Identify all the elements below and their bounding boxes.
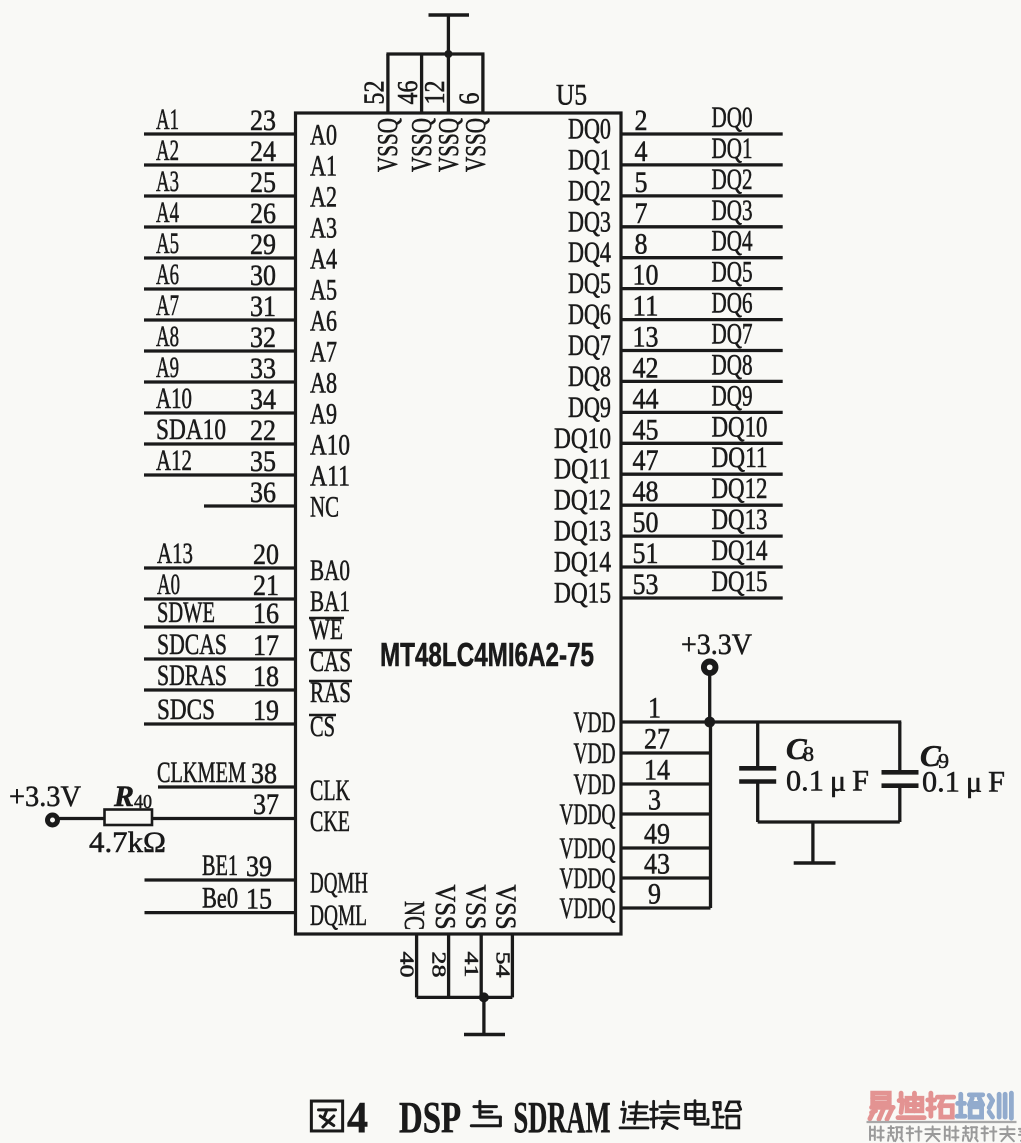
svg-text:47: 47 bbox=[633, 444, 659, 477]
svg-text:A3: A3 bbox=[156, 165, 179, 198]
svg-text:9: 9 bbox=[648, 878, 661, 911]
svg-text:49: 49 bbox=[644, 818, 670, 851]
svg-text:12: 12 bbox=[420, 81, 451, 105]
svg-text:DQ4: DQ4 bbox=[712, 225, 753, 258]
svg-text:DSP: DSP bbox=[399, 1093, 461, 1142]
svg-text:A8: A8 bbox=[156, 320, 179, 353]
svg-text:29: 29 bbox=[250, 228, 276, 261]
svg-text:39: 39 bbox=[246, 850, 272, 883]
svg-text:+3.3V: +3.3V bbox=[681, 628, 752, 661]
svg-text:A6: A6 bbox=[156, 258, 179, 291]
svg-text:DQ5: DQ5 bbox=[568, 267, 611, 300]
svg-text:42: 42 bbox=[633, 351, 659, 384]
svg-text:MT48LC4MI6A2-75: MT48LC4MI6A2-75 bbox=[380, 636, 594, 673]
svg-text:32: 32 bbox=[250, 321, 276, 354]
svg-text:4: 4 bbox=[635, 135, 648, 168]
svg-text:SDCS: SDCS bbox=[157, 693, 215, 726]
svg-text:A5: A5 bbox=[310, 274, 337, 307]
svg-text:A1: A1 bbox=[310, 150, 337, 183]
svg-text:DQ3: DQ3 bbox=[568, 205, 611, 238]
svg-text:VSS: VSS bbox=[460, 885, 491, 930]
svg-text:DQ15: DQ15 bbox=[554, 577, 611, 610]
svg-text:41: 41 bbox=[460, 952, 482, 978]
svg-text:17: 17 bbox=[253, 629, 279, 662]
svg-text:DQ13: DQ13 bbox=[712, 503, 768, 536]
svg-text:A8: A8 bbox=[310, 367, 337, 400]
svg-text:NC: NC bbox=[398, 901, 429, 930]
svg-text:A9: A9 bbox=[310, 398, 337, 431]
svg-text:38: 38 bbox=[251, 757, 277, 790]
svg-text:DQ7: DQ7 bbox=[712, 318, 753, 351]
svg-text:VSS: VSS bbox=[429, 885, 460, 930]
svg-text:DQ3: DQ3 bbox=[712, 194, 753, 227]
svg-text:VDDQ: VDDQ bbox=[560, 798, 616, 831]
svg-text:VDDQ: VDDQ bbox=[560, 892, 616, 925]
svg-text:DQ15: DQ15 bbox=[712, 565, 768, 598]
svg-text:44: 44 bbox=[633, 382, 659, 415]
svg-text:R: R bbox=[113, 780, 134, 813]
svg-text:A6: A6 bbox=[310, 305, 337, 338]
svg-text:16: 16 bbox=[253, 597, 279, 630]
svg-text:20: 20 bbox=[253, 538, 279, 571]
svg-text:36: 36 bbox=[250, 476, 276, 509]
svg-text:A2: A2 bbox=[310, 181, 337, 214]
svg-text:DQ8: DQ8 bbox=[568, 360, 611, 393]
svg-text:54: 54 bbox=[491, 952, 513, 978]
svg-text:A5: A5 bbox=[156, 227, 179, 260]
svg-text:SDWE: SDWE bbox=[157, 596, 215, 629]
svg-text:BE1: BE1 bbox=[202, 849, 238, 882]
svg-text:25: 25 bbox=[250, 166, 276, 199]
svg-text:DQ9: DQ9 bbox=[712, 379, 753, 412]
svg-text:1: 1 bbox=[648, 692, 661, 725]
svg-text:SDRAM: SDRAM bbox=[514, 1093, 611, 1142]
svg-text:10: 10 bbox=[633, 259, 659, 292]
svg-text:DQ14: DQ14 bbox=[712, 534, 768, 567]
svg-text:VDD: VDD bbox=[574, 706, 616, 739]
svg-text:35: 35 bbox=[250, 445, 276, 478]
svg-text:A1: A1 bbox=[156, 103, 179, 136]
svg-text:DQ0: DQ0 bbox=[568, 113, 611, 146]
svg-text:28: 28 bbox=[428, 952, 450, 978]
svg-text:U5: U5 bbox=[556, 79, 587, 112]
svg-text:43: 43 bbox=[644, 848, 670, 881]
svg-text:SDRAS: SDRAS bbox=[157, 659, 227, 692]
svg-text:DQ1: DQ1 bbox=[568, 143, 611, 176]
svg-text:DQ0: DQ0 bbox=[712, 101, 753, 134]
svg-text:VDD: VDD bbox=[574, 737, 616, 770]
svg-text:A2: A2 bbox=[156, 134, 179, 167]
svg-text:3: 3 bbox=[648, 784, 661, 817]
svg-text:A4: A4 bbox=[310, 243, 337, 276]
svg-text:DQ10: DQ10 bbox=[554, 422, 611, 455]
svg-text:13: 13 bbox=[633, 321, 659, 354]
svg-text:DQ2: DQ2 bbox=[712, 163, 753, 196]
svg-text:53: 53 bbox=[633, 568, 659, 601]
svg-text:40: 40 bbox=[134, 791, 152, 813]
svg-text:DQ12: DQ12 bbox=[554, 484, 611, 517]
svg-text:24: 24 bbox=[250, 135, 276, 168]
svg-text:VSSQ: VSSQ bbox=[461, 118, 492, 172]
svg-text:DQ7: DQ7 bbox=[568, 329, 611, 362]
svg-text:8: 8 bbox=[635, 228, 648, 261]
svg-text:VSS: VSS bbox=[490, 885, 521, 930]
svg-text:A10: A10 bbox=[310, 429, 350, 462]
svg-text:Be0: Be0 bbox=[202, 882, 238, 915]
svg-text:DQ5: DQ5 bbox=[712, 256, 753, 289]
svg-text:48: 48 bbox=[633, 475, 659, 508]
svg-text:8: 8 bbox=[803, 742, 814, 766]
svg-text:27: 27 bbox=[644, 723, 670, 756]
svg-text:40: 40 bbox=[396, 952, 418, 978]
svg-text:SDCAS: SDCAS bbox=[157, 628, 227, 661]
svg-text:26: 26 bbox=[250, 197, 276, 230]
svg-text:14: 14 bbox=[644, 754, 670, 787]
svg-text:DQ11: DQ11 bbox=[554, 453, 611, 486]
svg-text:DQ11: DQ11 bbox=[712, 441, 768, 474]
svg-text:DQ1: DQ1 bbox=[712, 132, 753, 165]
svg-text:DQMH: DQMH bbox=[310, 867, 368, 900]
svg-text:DQ9: DQ9 bbox=[568, 391, 611, 424]
svg-text:DQ12: DQ12 bbox=[712, 472, 768, 505]
svg-text:23: 23 bbox=[250, 104, 276, 137]
svg-text:11: 11 bbox=[633, 290, 659, 323]
svg-text:CKE: CKE bbox=[310, 805, 350, 838]
svg-text:4: 4 bbox=[347, 1093, 368, 1142]
svg-text:2: 2 bbox=[635, 104, 648, 137]
svg-text:DQ4: DQ4 bbox=[568, 236, 611, 269]
svg-text:VSSQ: VSSQ bbox=[373, 118, 404, 172]
svg-text:DQML: DQML bbox=[310, 899, 367, 932]
svg-text:A7: A7 bbox=[156, 289, 179, 322]
svg-text:6: 6 bbox=[454, 93, 485, 105]
svg-text:A13: A13 bbox=[157, 537, 193, 570]
svg-text:VDD: VDD bbox=[574, 768, 616, 801]
svg-text:CLKMEM: CLKMEM bbox=[157, 756, 246, 789]
svg-text:VDDQ: VDDQ bbox=[560, 862, 616, 895]
svg-text:31: 31 bbox=[250, 290, 276, 323]
svg-text:SDA10: SDA10 bbox=[156, 413, 226, 446]
svg-text:37: 37 bbox=[253, 788, 279, 821]
svg-text:A3: A3 bbox=[310, 212, 337, 245]
svg-text:VDDQ: VDDQ bbox=[560, 832, 616, 865]
svg-text:19: 19 bbox=[253, 694, 279, 727]
svg-text:A9: A9 bbox=[156, 351, 179, 384]
svg-text:DQ8: DQ8 bbox=[712, 348, 753, 381]
svg-text:A12: A12 bbox=[156, 444, 192, 477]
svg-text:52: 52 bbox=[359, 81, 390, 105]
svg-text:7: 7 bbox=[635, 197, 648, 230]
svg-text:22: 22 bbox=[250, 414, 276, 447]
svg-text:DQ13: DQ13 bbox=[554, 515, 611, 548]
svg-text:0.1 μ F: 0.1 μ F bbox=[786, 765, 869, 798]
svg-text:51: 51 bbox=[633, 537, 659, 570]
svg-text:CLK: CLK bbox=[310, 774, 350, 807]
svg-text:30: 30 bbox=[250, 259, 276, 292]
svg-text:A10: A10 bbox=[156, 382, 192, 415]
svg-text:5: 5 bbox=[635, 166, 648, 199]
svg-text:33: 33 bbox=[250, 352, 276, 385]
svg-text:34: 34 bbox=[250, 383, 276, 416]
svg-text:45: 45 bbox=[633, 413, 659, 446]
svg-text:DQ2: DQ2 bbox=[568, 174, 611, 207]
svg-text:DQ6: DQ6 bbox=[568, 298, 611, 331]
svg-text:BA0: BA0 bbox=[310, 554, 350, 587]
svg-text:A4: A4 bbox=[156, 196, 179, 229]
svg-text:50: 50 bbox=[633, 506, 659, 539]
svg-text:+3.3V: +3.3V bbox=[9, 780, 81, 813]
svg-text:A7: A7 bbox=[310, 336, 337, 369]
svg-text:NC: NC bbox=[310, 491, 339, 524]
svg-text:DQ10: DQ10 bbox=[712, 410, 768, 443]
svg-text:4.7kΩ: 4.7kΩ bbox=[89, 826, 166, 859]
svg-text:18: 18 bbox=[253, 660, 279, 693]
svg-text:15: 15 bbox=[246, 883, 272, 916]
svg-text:0.1 μ F: 0.1 μ F bbox=[922, 766, 1005, 799]
svg-text:A0: A0 bbox=[310, 119, 337, 152]
svg-text:DQ6: DQ6 bbox=[712, 287, 753, 320]
svg-text:A11: A11 bbox=[310, 460, 350, 493]
svg-text:DQ14: DQ14 bbox=[554, 546, 611, 579]
